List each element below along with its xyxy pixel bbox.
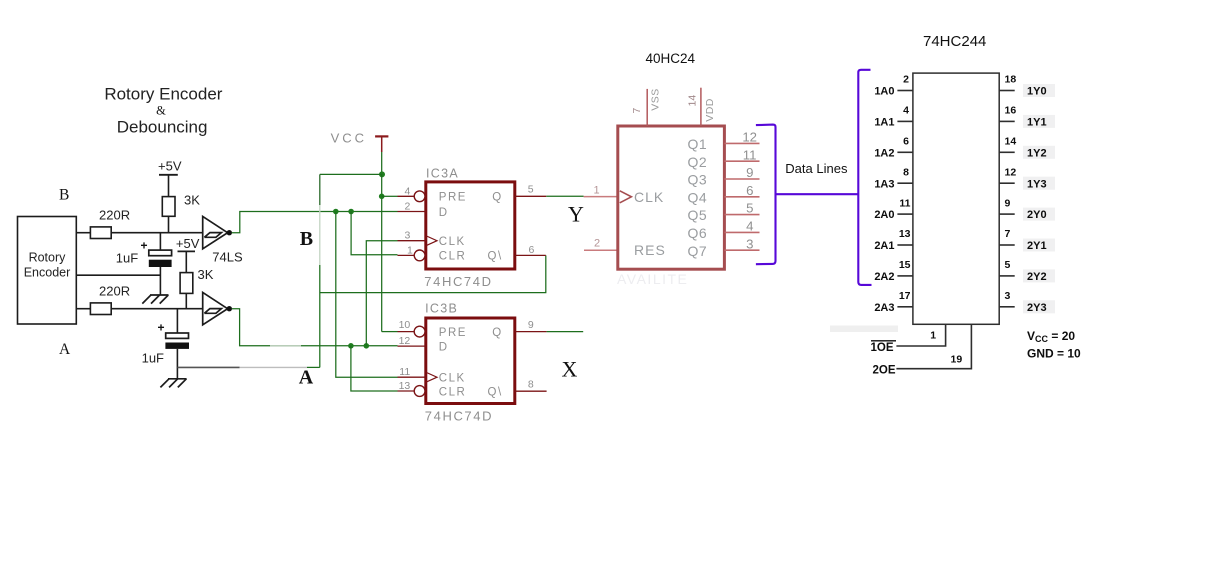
svg-text:11: 11 xyxy=(399,366,410,378)
rotary encoder box xyxy=(18,217,77,325)
svg-text:Debouncing: Debouncing xyxy=(117,118,208,137)
svg-text:1Y3: 1Y3 xyxy=(1027,178,1047,190)
svg-text:Rotory Encoder: Rotory Encoder xyxy=(104,85,222,104)
wire resistor to buffer B xyxy=(111,232,203,234)
wire encoder A to resistor xyxy=(76,308,90,310)
svg-text:A: A xyxy=(59,341,71,358)
svg-text:Q6: Q6 xyxy=(688,225,708,241)
svg-text:B: B xyxy=(300,228,313,250)
pin 8 stub (Q\) xyxy=(515,390,547,392)
svg-text:IC3B: IC3B xyxy=(425,302,458,316)
IC3A clk triangle xyxy=(427,236,438,245)
svg-text:Q: Q xyxy=(492,192,502,204)
wire Q IC3A to CLK 40HC24 (green) xyxy=(546,195,583,197)
wire VCC node left xyxy=(320,173,382,175)
pin 9 stub (Q) xyxy=(515,331,547,333)
svg-text:5: 5 xyxy=(528,183,534,195)
svg-text:220R: 220R xyxy=(99,208,130,223)
svg-text:74LS: 74LS xyxy=(212,250,243,265)
svg-text:AVAILITE: AVAILITE xyxy=(617,271,688,287)
svg-text:11: 11 xyxy=(743,147,757,162)
pin 1 1OE wire xyxy=(896,324,945,346)
svg-text:CLK: CLK xyxy=(634,189,664,205)
wire Q\ IC3A feedback loop xyxy=(320,255,546,292)
svg-text:9: 9 xyxy=(1005,197,1011,209)
flip-flop IC3B box xyxy=(426,318,515,404)
svg-text:17: 17 xyxy=(899,290,911,302)
svg-text:8: 8 xyxy=(528,379,534,391)
pin 13 stub + bubble (CLR) xyxy=(398,390,415,392)
svg-text:A: A xyxy=(299,367,314,389)
title Rotory Encoder & Debouncing xyxy=(104,85,222,137)
IC3B pin names xyxy=(439,327,503,398)
svg-text:Q7: Q7 xyxy=(688,243,708,259)
svg-text:+: + xyxy=(141,239,148,253)
purple bracket (40HC24 outputs) xyxy=(756,125,776,265)
svg-text:Encoder: Encoder xyxy=(24,266,71,280)
svg-text:3: 3 xyxy=(746,236,753,251)
svg-text:1: 1 xyxy=(594,185,600,197)
faint smudge left of 1OE xyxy=(830,326,898,333)
junction at PRE IC3A row xyxy=(379,194,385,200)
wire A net faded segment xyxy=(270,345,301,347)
svg-text:6: 6 xyxy=(903,136,909,148)
svg-text:2Y2: 2Y2 xyxy=(1027,271,1047,283)
svg-text:1A1: 1A1 xyxy=(874,117,894,129)
buffer 74HC244 box xyxy=(913,73,999,324)
svg-text:1OE: 1OE xyxy=(871,342,894,354)
svg-text:CLK: CLK xyxy=(439,236,466,248)
svg-text:4: 4 xyxy=(405,185,411,197)
svg-text:14: 14 xyxy=(1005,136,1017,148)
right pins 1Y0-2Y3 xyxy=(999,91,1015,307)
svg-text:VSS: VSS xyxy=(650,88,662,111)
svg-text:VDD: VDD xyxy=(704,98,716,122)
svg-text:6: 6 xyxy=(746,183,753,198)
wire Q IC3B (green, open end) xyxy=(547,331,584,333)
CLK input arrow xyxy=(620,191,632,203)
junction VCC node xyxy=(379,171,385,177)
svg-text:3: 3 xyxy=(1005,290,1011,302)
svg-text:&: & xyxy=(156,104,166,118)
pin 14 VDD stub xyxy=(700,88,702,126)
svg-text:Q1: Q1 xyxy=(688,136,708,152)
pin 10 stub + bubble (PRE) xyxy=(398,331,415,333)
svg-text:B: B xyxy=(59,187,69,204)
wire encoder middle pin xyxy=(76,274,160,276)
svg-text:13: 13 xyxy=(399,380,411,392)
wire RES stub (light red) xyxy=(584,249,618,251)
svg-text:12: 12 xyxy=(742,130,757,145)
svg-text:1Y0: 1Y0 xyxy=(1027,86,1047,98)
svg-text:3K: 3K xyxy=(184,193,200,208)
svg-text:2: 2 xyxy=(903,74,909,86)
svg-text:D: D xyxy=(439,341,449,353)
svg-text:Q4: Q4 xyxy=(688,189,708,205)
wire vertical x=319.8 (dark bottom segment) xyxy=(319,265,321,367)
wire vertical x=319.8 (faint middle segment) xyxy=(319,205,321,265)
resistor 3K (B pullup) xyxy=(162,197,175,217)
svg-text:2Y3: 2Y3 xyxy=(1027,302,1047,314)
svg-text:Q5: Q5 xyxy=(688,207,708,223)
svg-text:5: 5 xyxy=(746,201,753,216)
svg-text:1uF: 1uF xyxy=(116,251,138,266)
junction on A net xyxy=(364,343,370,349)
counter 40HC24 box xyxy=(618,126,725,269)
svg-text:1Y2: 1Y2 xyxy=(1027,147,1047,159)
wire to PRE IC3A xyxy=(382,195,398,197)
Q1-Q7 pin names xyxy=(688,136,708,259)
svg-text:1: 1 xyxy=(930,330,936,342)
wire cap A bottom tee to right (gray) xyxy=(177,366,239,368)
pin 12 stub (D) xyxy=(398,345,426,347)
ground (under 1uF B) xyxy=(142,295,168,304)
wire B net: buffer output up and right to pin 2 xyxy=(232,212,398,233)
svg-text:74HC74D: 74HC74D xyxy=(425,409,493,424)
svg-text:Data Lines: Data Lines xyxy=(785,161,848,176)
svg-text:3K: 3K xyxy=(198,267,214,282)
wire to PRE IC3B xyxy=(382,331,398,333)
wire encoder B to resistor xyxy=(76,232,90,234)
faint highlight boxes behind Y labels xyxy=(1023,84,1055,313)
svg-text:1Y1: 1Y1 xyxy=(1027,117,1047,129)
1OE label with overline xyxy=(871,340,896,342)
svg-text:14: 14 xyxy=(687,95,699,107)
output pin stubs Q1-Q7 xyxy=(724,143,759,250)
junction on B net xyxy=(333,209,339,215)
svg-text:2Y1: 2Y1 xyxy=(1027,240,1047,252)
svg-text:6: 6 xyxy=(529,244,535,256)
svg-text:9: 9 xyxy=(528,319,534,331)
resistor 3K (A pullup) xyxy=(180,273,193,294)
output pin numbers xyxy=(742,130,757,252)
wire CLK stub (light red) xyxy=(584,196,618,198)
svg-text:1: 1 xyxy=(407,244,413,256)
svg-text:12: 12 xyxy=(1005,166,1017,178)
pin 2 stub (D) xyxy=(398,211,426,213)
svg-text:Y: Y xyxy=(568,202,584,227)
svg-text:X: X xyxy=(562,356,578,381)
svg-text:Q\: Q\ xyxy=(488,386,503,398)
svg-text:10: 10 xyxy=(399,319,411,331)
svg-text:1A3: 1A3 xyxy=(874,178,894,190)
svg-text:7: 7 xyxy=(631,108,643,114)
wire A net: buffer output down and right to pin 12 xyxy=(232,309,398,346)
svg-text:PRE: PRE xyxy=(439,327,467,339)
svg-text:1A0: 1A0 xyxy=(874,86,894,98)
svg-text:2A2: 2A2 xyxy=(874,271,894,283)
wire VCC down to PRE pins xyxy=(381,174,383,331)
svg-text:19: 19 xyxy=(951,354,963,366)
svg-text:RES: RES xyxy=(634,242,666,258)
svg-text:PRE: PRE xyxy=(439,192,467,204)
svg-text:VCC: VCC xyxy=(331,131,367,146)
svg-text:9: 9 xyxy=(746,165,753,180)
svg-text:2: 2 xyxy=(594,238,600,250)
pin 4 stub + bubble (PRE) xyxy=(398,195,415,197)
svg-text:Q\: Q\ xyxy=(488,251,503,263)
capacitor 1uF (B channel) xyxy=(159,233,161,250)
svg-text:2A0: 2A0 xyxy=(874,209,894,221)
svg-text:2OE: 2OE xyxy=(873,364,896,376)
svg-text:12: 12 xyxy=(399,335,411,347)
svg-text:Q3: Q3 xyxy=(688,172,708,188)
wire tee faded segment xyxy=(240,366,307,368)
svg-text:Q2: Q2 xyxy=(688,154,708,170)
svg-text:4: 4 xyxy=(903,105,909,117)
data lines connector xyxy=(776,193,859,195)
svg-text:CLR: CLR xyxy=(439,251,467,263)
svg-text:2Y0: 2Y0 xyxy=(1027,209,1047,221)
svg-text:7: 7 xyxy=(1005,228,1011,240)
resistor 220R (A channel) xyxy=(90,303,111,315)
wire ground tee green segment xyxy=(307,366,320,368)
svg-text:3: 3 xyxy=(405,230,411,242)
wire 3K to A line xyxy=(185,293,187,308)
svg-text:220R: 220R xyxy=(99,284,130,299)
wire resistor to buffer A xyxy=(111,308,203,310)
svg-text:16: 16 xyxy=(1005,105,1017,117)
wire VCC down (green) xyxy=(381,152,383,174)
svg-text:CLK: CLK xyxy=(439,373,466,385)
left pins 1A0-2A3 xyxy=(897,91,913,307)
capacitor 1uF (A channel) xyxy=(176,309,178,333)
wire 3K to B line xyxy=(168,216,170,232)
svg-text:18: 18 xyxy=(1005,74,1017,86)
junction on A net xyxy=(348,343,354,349)
svg-text:5: 5 xyxy=(1005,259,1011,271)
svg-text:8: 8 xyxy=(903,166,909,178)
svg-text:2: 2 xyxy=(405,201,411,213)
wire A to CLK IC3A (vertical x=366.3) xyxy=(366,241,397,346)
svg-text:13: 13 xyxy=(899,228,911,240)
schmitt buffer U1 (B) 74LS xyxy=(203,216,228,248)
svg-text:2A3: 2A3 xyxy=(874,302,894,314)
svg-text:+: + xyxy=(158,321,165,335)
svg-text:74HC244: 74HC244 xyxy=(923,33,986,50)
svg-text:4: 4 xyxy=(746,219,753,234)
resistor 220R (B channel) xyxy=(90,227,111,239)
svg-text:40HC24: 40HC24 xyxy=(646,51,696,66)
wire A to CLR IC3B (vertical x=350.9) xyxy=(351,346,398,391)
svg-text:Q: Q xyxy=(492,327,502,339)
svg-text:1uF: 1uF xyxy=(142,351,164,366)
pin 1 stub + bubble (CLR) xyxy=(398,254,415,256)
svg-text:+5V: +5V xyxy=(158,159,182,174)
pin 5 stub (Q) xyxy=(515,195,547,197)
flip-flop IC3A box xyxy=(426,182,515,269)
svg-text:+5V: +5V xyxy=(176,236,200,251)
svg-text:CLR: CLR xyxy=(439,386,467,398)
pin 3 stub (CLK) xyxy=(398,240,426,242)
pin 11 stub (CLK) xyxy=(398,376,426,378)
wire vertical x=319.8 (dark top segment) xyxy=(319,174,321,205)
svg-text:2A1: 2A1 xyxy=(874,240,894,252)
pin 7 VSS stub xyxy=(646,89,648,126)
svg-text:Rotory: Rotory xyxy=(29,251,67,265)
svg-text:D: D xyxy=(439,207,449,219)
svg-text:VCC = 20: VCC = 20 xyxy=(1027,329,1075,344)
schmitt buffer U2 (A) xyxy=(203,292,228,324)
ground (under 1uF A) xyxy=(160,379,186,388)
svg-text:15: 15 xyxy=(899,259,911,271)
wire B to CLR IC3A (vertical x=351.1) xyxy=(351,212,397,255)
purple bracket (74HC244 inputs) xyxy=(858,70,871,285)
svg-text:IC3A: IC3A xyxy=(426,167,459,181)
svg-text:11: 11 xyxy=(899,197,910,209)
pin 6 stub (Q\) xyxy=(515,254,546,256)
svg-text:74HC74D: 74HC74D xyxy=(424,274,492,289)
IC3B clk triangle xyxy=(427,373,438,382)
svg-text:GND = 10: GND = 10 xyxy=(1027,347,1081,361)
pin 19 2OE wire xyxy=(896,324,971,368)
junction on B net xyxy=(348,209,354,215)
wire B to CLK IC3B (vertical x=335.8) xyxy=(336,212,398,378)
svg-text:1A2: 1A2 xyxy=(874,147,894,159)
IC3A pin names xyxy=(439,192,503,263)
